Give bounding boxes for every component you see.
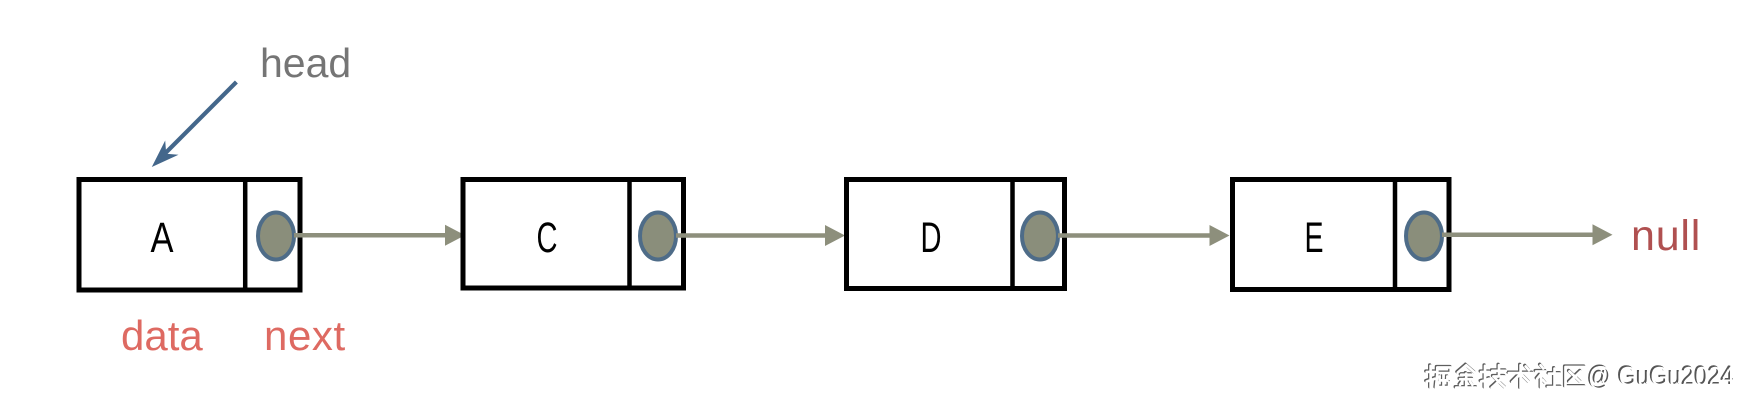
- svg-text:A: A: [151, 214, 174, 262]
- node D box: [847, 180, 1065, 289]
- node C box: [463, 180, 684, 289]
- watermark: [1426, 360, 1735, 392]
- watermark CJK white layer: [1427, 365, 1585, 388]
- svg-text:E: E: [1305, 214, 1324, 262]
- svg-text:@ GuGu2024: @ GuGu2024: [1588, 361, 1735, 391]
- node E next pointer dot: [1406, 213, 1442, 260]
- svg-text:head: head: [260, 40, 351, 86]
- arrow C to D: [676, 233, 826, 238]
- node A box: [79, 180, 300, 291]
- node E box: [1233, 180, 1450, 290]
- node C divider: [627, 177, 632, 290]
- svg-text:C: C: [537, 214, 558, 262]
- head pointer arrow: [164, 82, 236, 155]
- svg-text:data: data: [121, 312, 203, 359]
- arrow A to C: [294, 233, 446, 238]
- svg-text:D: D: [921, 214, 942, 262]
- node E divider: [1393, 177, 1398, 291]
- svg-text:null: null: [1631, 212, 1701, 260]
- arrow D to E: [1058, 233, 1210, 238]
- node D next pointer dot: [1022, 213, 1058, 260]
- node C next pointer dot: [640, 213, 676, 260]
- node D divider: [1010, 177, 1015, 291]
- watermark CJK shadow layer: [1426, 364, 1584, 387]
- node A next pointer dot: [258, 213, 294, 260]
- svg-text:next: next: [264, 312, 346, 359]
- head arrowhead: [152, 141, 179, 168]
- node A divider: [243, 177, 248, 292]
- arrow E to null: [1442, 233, 1593, 238]
